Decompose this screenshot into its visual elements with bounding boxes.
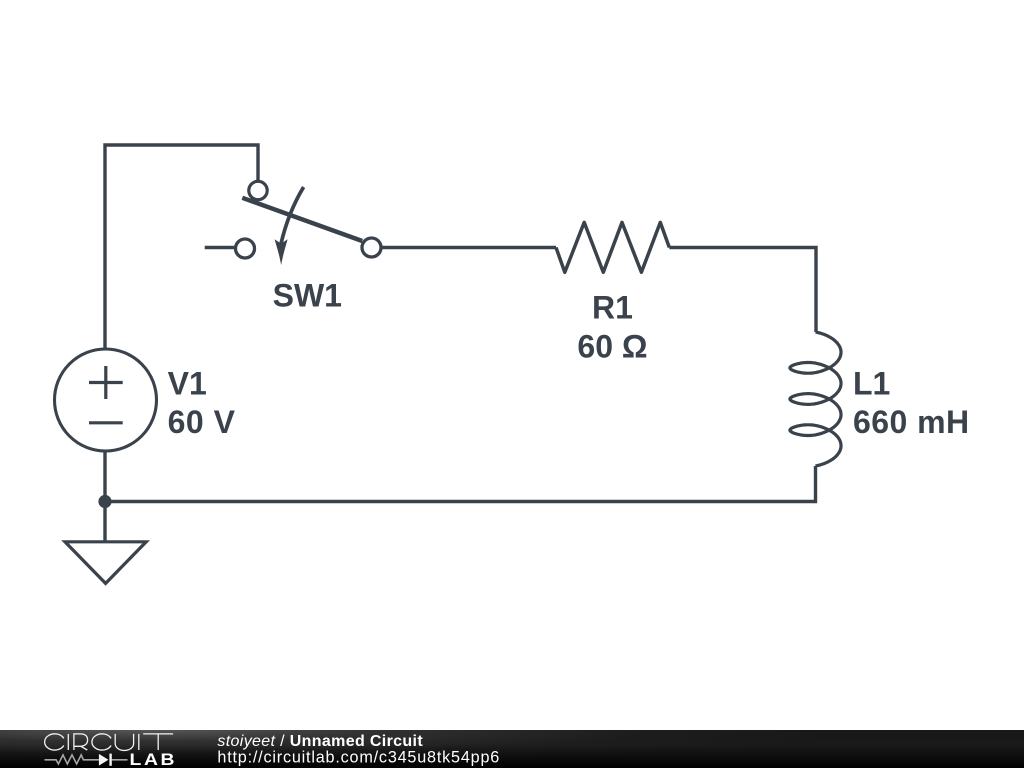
SW1 arrowhead [275, 239, 288, 265]
SW1 terminal circle top [249, 181, 267, 199]
ground symbol [65, 542, 146, 584]
svg-text:http://circuitlab.com/c345u8tk: http://circuitlab.com/c345u8tk54pp6 [217, 749, 500, 767]
svg-text:SW1: SW1 [273, 277, 342, 313]
resistor R1 zigzag [556, 222, 669, 272]
svg-text:660 mH: 660 mH [853, 404, 970, 440]
wire from V1 minus terminal to ground node [103, 451, 106, 502]
wire from switch SW1 to resistor R1 [382, 246, 556, 249]
V1 plus sign [89, 366, 123, 399]
ground stem wire [103, 502, 106, 542]
svg-text:R1: R1 [592, 290, 633, 326]
footer bar [0, 730, 1024, 768]
CircuitLab logo schematic: wire [45, 755, 128, 764]
CircuitLab logo schematic: diode [99, 754, 109, 766]
footer bar sheen [0, 730, 1024, 768]
svg-text:V1: V1 [168, 365, 207, 401]
V1 minus sign [89, 421, 123, 424]
svg-text:LAB: LAB [130, 750, 178, 768]
SW1 actuation arc [281, 187, 304, 244]
wire from V1 plus terminal up and right to switch SW1 [105, 145, 258, 349]
SW1 pole circle left [236, 239, 255, 258]
svg-text:60 V: 60 V [168, 404, 236, 440]
switch SW1 [236, 181, 382, 265]
svg-text:stoiyeet / Unnamed Circuit: stoiyeet / Unnamed Circuit [217, 733, 423, 750]
CircuitLab logo word CIRCUIT [45, 734, 173, 751]
voltage source V1 [55, 349, 157, 451]
V1 circle [55, 349, 157, 451]
wire stub at switch pole [205, 246, 235, 249]
SW1 terminal circle right [362, 238, 381, 257]
wire from R1 to inductor L1 [669, 248, 816, 333]
svg-text:60 Ω: 60 Ω [577, 329, 647, 365]
wire from L1 bottom along the bottom to ground node [105, 466, 816, 502]
svg-text:L1: L1 [853, 365, 890, 401]
SW1 blade [242, 198, 362, 241]
ground node junction dot [98, 495, 111, 508]
inductor L1 coil [790, 332, 841, 466]
